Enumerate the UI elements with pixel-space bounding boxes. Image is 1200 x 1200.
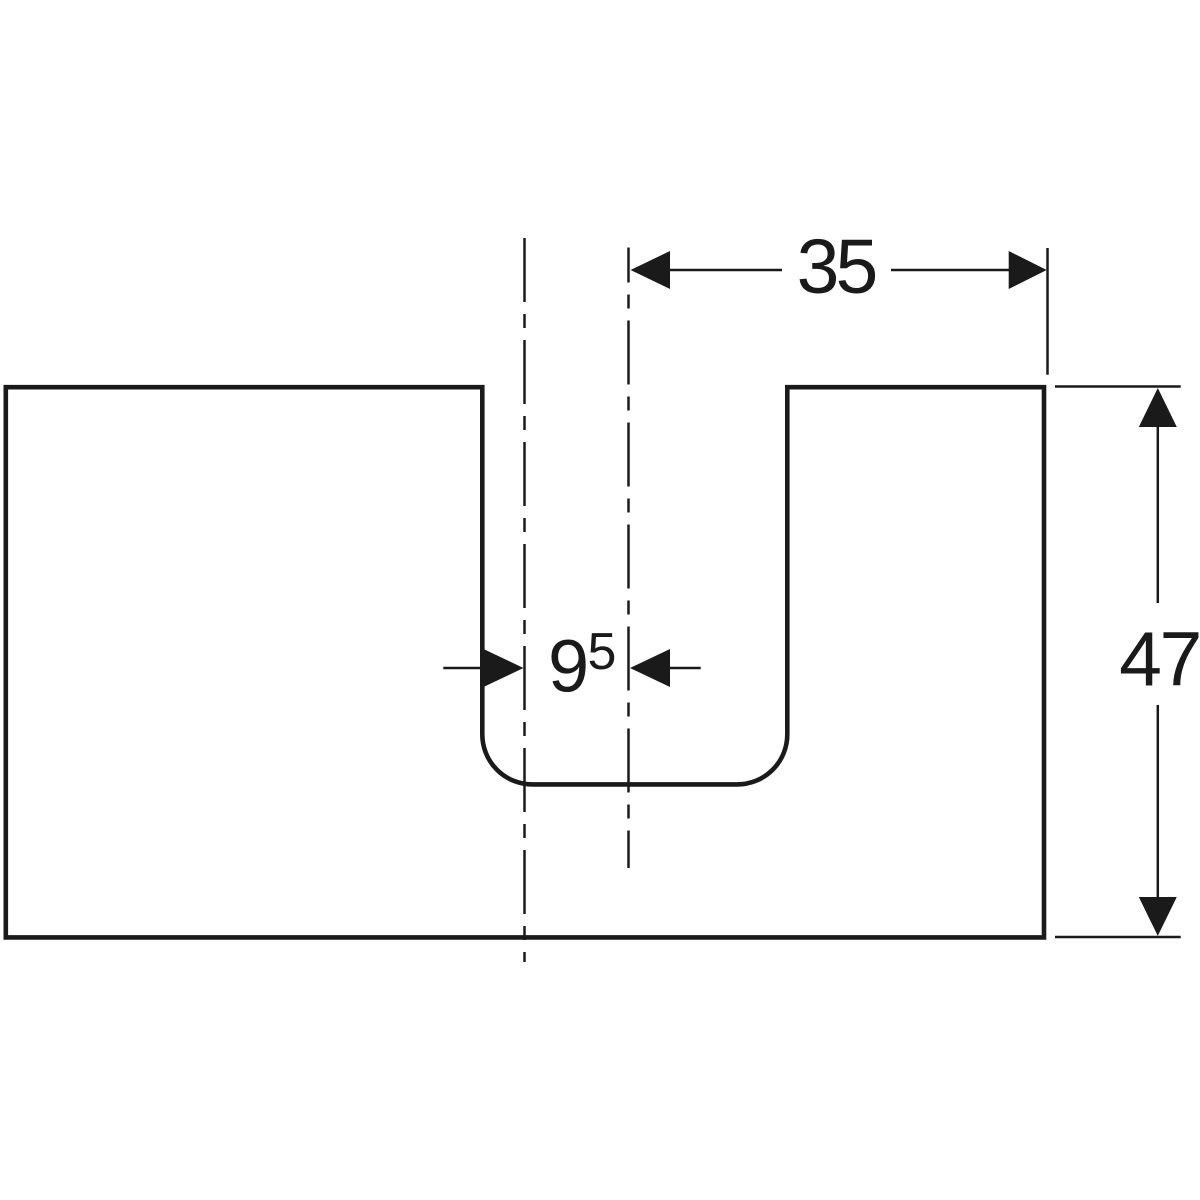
dimension 35 right arrow: [1009, 251, 1047, 289]
dimension 35 line left segment: [668, 269, 782, 272]
extension line top of dimension 47: [1055, 385, 1181, 388]
extension line bottom of dimension 47: [1055, 936, 1181, 939]
dimension 47 top arrow: [1139, 388, 1177, 427]
dimension 95 right tail: [668, 667, 701, 670]
dimension 35 line right segment: [891, 269, 1010, 272]
dimension 95 right arrow: [630, 649, 670, 687]
dimension 47 bottom arrow: [1139, 897, 1177, 936]
dimension 47 line top segment: [1157, 425, 1160, 603]
countertop outline with U-shaped cutout: [6, 387, 1044, 937]
svg-text:9: 9: [548, 625, 589, 708]
svg-text:47: 47: [1119, 617, 1200, 703]
center line left (dash-dot): [523, 238, 526, 962]
dimension 35 left arrow: [631, 251, 671, 289]
extension line right of dimension 35: [1046, 248, 1049, 375]
center line right (dash-dot): [627, 248, 630, 869]
dimension 95 left tail: [443, 667, 485, 670]
dimension 95 left arrow: [484, 649, 524, 687]
svg-text:35: 35: [797, 224, 876, 310]
dimension 47 line bottom segment: [1157, 705, 1160, 899]
svg-text:5: 5: [588, 623, 617, 681]
